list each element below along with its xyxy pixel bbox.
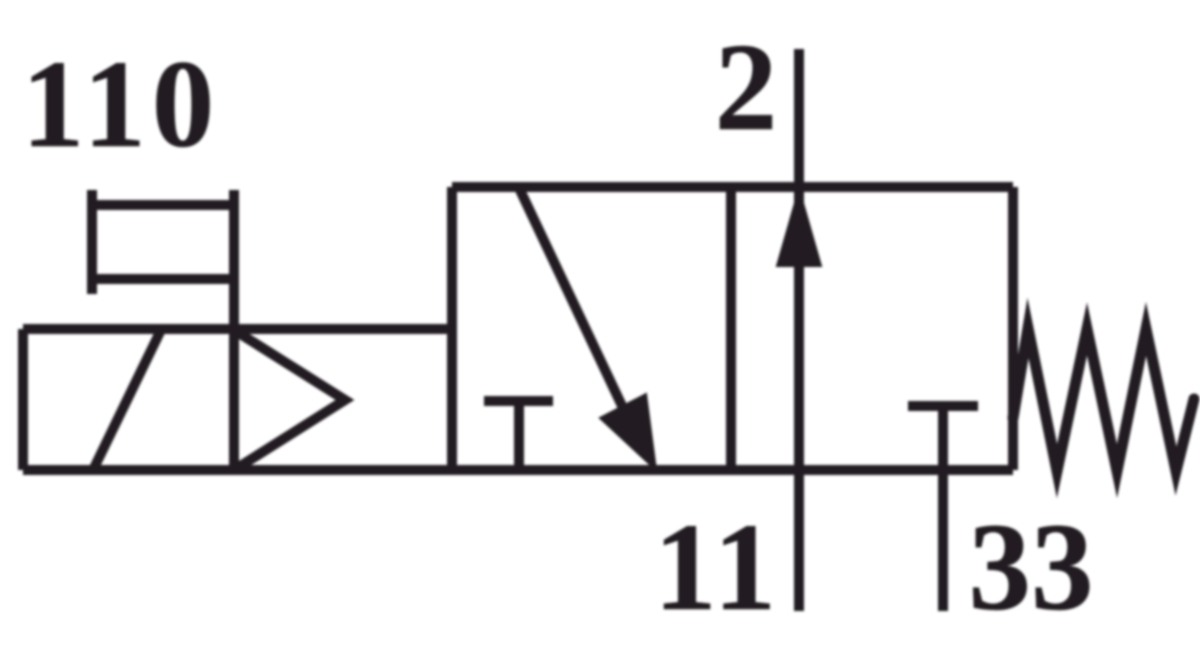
- solenoid coil diagonal stroke: [94, 332, 160, 468]
- port 2 through-line: [794, 49, 804, 611]
- up arrowhead on port 2 line: [777, 189, 821, 266]
- svg-text:33: 33: [969, 499, 1094, 637]
- svg-text:11: 11: [654, 499, 780, 637]
- solenoid divider / terminal right bar: [229, 190, 239, 470]
- return spring: [1013, 328, 1194, 471]
- solenoid terminal bracket top rail: [92, 200, 234, 210]
- svg-text:110: 110: [22, 36, 221, 174]
- valve body left edge: [447, 187, 457, 470]
- blocked port T (right square, port 3): [908, 406, 978, 611]
- solenoid terminal bracket bottom rail: [92, 274, 234, 284]
- solenoid box top edge: [23, 324, 452, 334]
- valve body center divider: [726, 187, 736, 470]
- valve body top edge: [452, 182, 1013, 192]
- blocked port T (left square): [484, 401, 553, 470]
- valve body bottom edge (shared with solenoid box): [23, 465, 1013, 475]
- flow path diagonal line (left square): [520, 190, 632, 427]
- valve body right edge: [1008, 187, 1018, 470]
- svg-text:2: 2: [715, 19, 778, 157]
- solenoid box left edge: [18, 329, 28, 470]
- pilot triangle: [234, 330, 345, 470]
- solenoid terminal bracket left bar: [87, 190, 97, 294]
- flow path arrowhead: [600, 394, 656, 470]
